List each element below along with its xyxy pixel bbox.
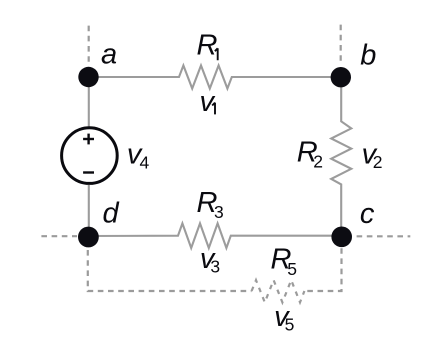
svg-text:b: b <box>360 40 376 72</box>
svg-text:5: 5 <box>287 259 297 279</box>
svg-text:5: 5 <box>285 314 295 334</box>
svg-text:c: c <box>360 198 375 230</box>
svg-text:4: 4 <box>140 153 150 173</box>
svg-text:2: 2 <box>373 152 383 172</box>
svg-text:2: 2 <box>313 152 323 172</box>
svg-text:v: v <box>200 86 216 118</box>
svg-text:R: R <box>197 29 218 61</box>
svg-text:3: 3 <box>210 257 220 277</box>
svg-text:a: a <box>101 39 117 71</box>
svg-text:d: d <box>103 198 120 230</box>
svg-text:3: 3 <box>214 202 224 222</box>
